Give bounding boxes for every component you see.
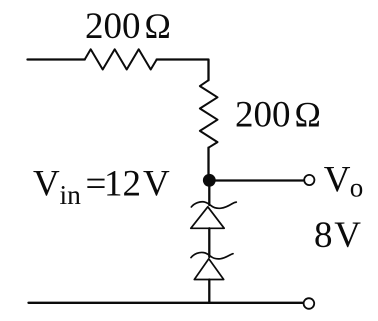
zener diode D2 cathode bar (curved) [191,252,233,258]
wire (bottom return rail) [29,302,303,304]
svg-text:12: 12 [104,164,141,205]
svg-text:in: in [60,179,82,210]
zener diode D2 triangle [194,259,223,280]
label Vo [324,159,364,202]
wire (node A to output terminal) [209,179,303,181]
svg-text:V: V [334,215,361,256]
svg-text:200: 200 [85,6,141,47]
svg-text:Ω: Ω [145,6,171,46]
bottom terminal (open circle) [304,298,315,309]
label 8 V [314,215,361,256]
label R2 value 200 Ω [235,94,321,135]
label Vin = 12 V [33,164,170,211]
resistor R2 (200 Ω, vertical zigzag) [200,80,218,148]
zener diode D1 cathode bar (curved) [191,202,236,209]
terminal Vo (open circle) [304,175,314,185]
svg-text:Ω: Ω [295,94,321,134]
wire (R1 to top corner, then down to R2) [157,60,209,81]
svg-text:V: V [324,159,351,200]
wire (R2 to node A) [207,148,209,180]
svg-text:200: 200 [235,94,291,135]
wire (input lead, top-left) [28,58,85,60]
svg-text:V: V [33,164,60,205]
svg-text:8: 8 [314,215,333,256]
wire (D2 anode down to bottom rail) [208,280,210,303]
wire (D1 anode to D2 cathode) [208,228,210,257]
node A (junction dot) [203,174,216,187]
zener diode D1 triangle [191,207,224,229]
svg-text:o: o [350,173,364,203]
resistor R1 (200 Ω, horizontal zigzag) [85,49,157,69]
label R1 value 200 Ω [85,6,171,47]
svg-text:V: V [143,164,170,205]
wire (node A down to D1 cathode) [208,186,210,205]
